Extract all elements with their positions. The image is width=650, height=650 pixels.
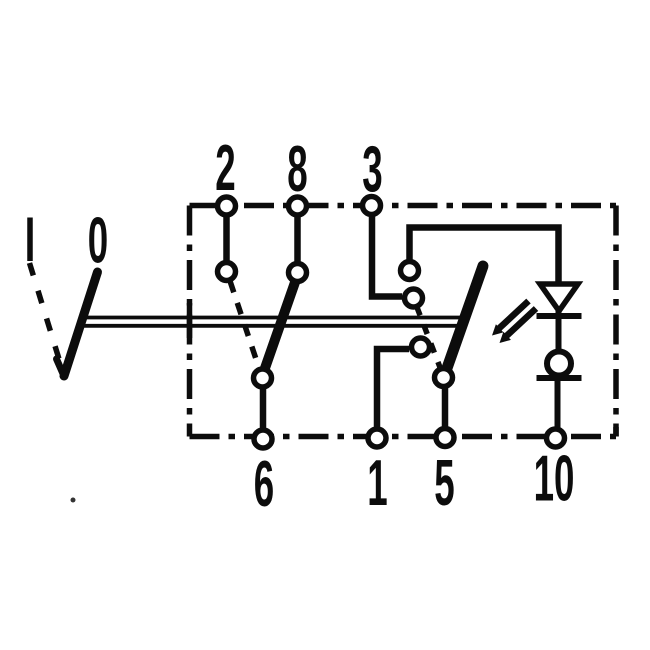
- LED triangle: [540, 284, 578, 311]
- switch blade pole B (open position): [446, 266, 483, 371]
- contact circle terminal 2 lower: [218, 263, 236, 281]
- enclosure dash-dot box: right border: [613, 206, 619, 437]
- enclosure left border tick across link: [187, 303, 193, 338]
- mechanical link lower line: [77, 324, 463, 328]
- wire terminal 8 riser: [294, 206, 301, 266]
- LED cathode bar: [537, 313, 582, 319]
- contact circle terminal 8 lower: [289, 264, 307, 282]
- illumination arrow 2 head: [500, 332, 511, 343]
- wire pivot A to terminal 6: [260, 378, 267, 439]
- lever arm (solid, position 0): [64, 272, 98, 376]
- lever tip stroke: [57, 359, 65, 376]
- wire LED feed from contact up and right: [410, 228, 559, 284]
- svg-text:8: 8: [287, 133, 307, 206]
- svg-text:6: 6: [254, 448, 274, 521]
- illumination arrow 2 shaft: [505, 309, 537, 338]
- svg-text:3: 3: [362, 134, 382, 207]
- dashed blade alternate position 2-6: [230, 281, 259, 368]
- wire LED cathode down: [556, 311, 562, 363]
- contact circle pivot pole B: [435, 369, 453, 387]
- switch blade pole A (8 to 6): [264, 278, 297, 371]
- wire terminal 1 elbow: [377, 349, 409, 438]
- illumination arrow 1 head: [492, 324, 503, 335]
- terminal 1: [368, 429, 386, 447]
- wire terminal 5 riser: [442, 378, 449, 438]
- terminal 8: [289, 197, 307, 215]
- svg-text:2: 2: [215, 132, 235, 205]
- terminal 2: [218, 197, 236, 215]
- contact circle terminal 3: [405, 289, 423, 307]
- illumination arrow 1 shaft: [497, 301, 529, 330]
- mechanical link upper line: [80, 316, 466, 320]
- stray dot artifact: [71, 498, 76, 503]
- enclosure dash-dot box: bottom-right corner dash: [613, 427, 619, 437]
- wire lamp to terminal 10: [555, 363, 561, 431]
- terminal 10: [547, 429, 565, 447]
- svg-text:0: 0: [88, 205, 108, 278]
- lamp circle: [547, 352, 571, 376]
- lever dashed position I: [30, 263, 64, 372]
- dashed blade alternate position 3-5: [417, 306, 442, 370]
- terminal 5: [436, 429, 454, 447]
- wire terminal 2 riser: [223, 206, 230, 266]
- lamp base bar: [537, 375, 582, 381]
- terminal 6: [254, 430, 272, 448]
- svg-text:1: 1: [367, 447, 387, 520]
- contact circle terminal 1: [412, 338, 430, 356]
- contact circle LED branch: [401, 262, 419, 280]
- wire terminal 3 elbow: [372, 206, 402, 297]
- svg-text:10: 10: [534, 443, 575, 516]
- enclosure dash-dot box: bottom border: [190, 434, 617, 440]
- enclosure dash-dot box: left border: [187, 206, 193, 437]
- label I (position I): [27, 218, 33, 262]
- enclosure dash-dot box: top border: [190, 203, 617, 209]
- terminal 3: [363, 197, 381, 215]
- svg-text:5: 5: [434, 447, 454, 520]
- contact circle pivot pole A: [254, 369, 272, 387]
